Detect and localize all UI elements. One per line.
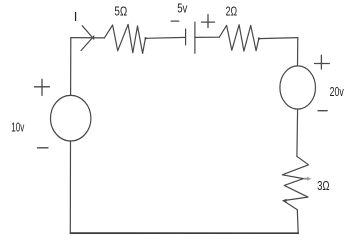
gray arrowhead mid R3 pointing right — [304, 177, 311, 181]
junction dot at right end of R2 — [258, 37, 260, 39]
battery V2 long plate (positive) — [194, 22, 196, 53]
wire from battery V2 to resistor R2 — [195, 36, 219, 38]
svg-text:3Ω: 3Ω — [317, 179, 330, 193]
plus sign of 10v source — [35, 79, 50, 95]
svg-text:5v: 5v — [177, 2, 188, 16]
svg-text:2Ω: 2Ω — [226, 5, 238, 19]
voltage source V3 20v circle — [280, 66, 316, 109]
wire from R2 to top-right corner — [259, 38, 298, 39]
wire top-right vertical to 20v source top — [297, 38, 299, 66]
wire top segment from corner to resistor R1 — [71, 37, 105, 39]
wire top-left vertical (corner to 10v source top) — [70, 38, 72, 96]
wire bottom-left vertical to 10v source bottom — [69, 141, 71, 233]
wire bottom horizontal — [70, 232, 298, 234]
dark arrowhead at lower-left vertex of R3 pointing left — [282, 199, 287, 203]
minus sign of battery 5v — [171, 20, 179, 22]
resistor R3 3ohm vertical zigzag — [282, 156, 308, 209]
svg-text:I: I — [74, 9, 78, 24]
voltage source V1 10v circle — [50, 95, 90, 141]
resistor R2 2ohm zigzag — [219, 25, 258, 51]
wire from R1 to battery V2 — [146, 36, 186, 39]
plus sign of 20v source — [315, 55, 330, 69]
svg-text:5Ω: 5Ω — [114, 5, 127, 19]
junction dot at right end of R1 — [145, 37, 147, 39]
minus sign of 20v source — [318, 110, 327, 112]
plus sign of battery 5v — [202, 15, 215, 28]
svg-text:10v: 10v — [11, 121, 25, 135]
current arrow I (arrowhead on top wire) — [81, 26, 94, 51]
svg-text:20v: 20v — [330, 85, 345, 99]
minus sign of 10v source — [38, 147, 49, 149]
wire from 20v source bottom to resistor R3 — [296, 109, 299, 156]
battery V2 short plate (negative) — [185, 29, 187, 45]
wire bottom-right vertical — [296, 210, 299, 233]
resistor R1 5ohm zigzag — [104, 24, 145, 53]
